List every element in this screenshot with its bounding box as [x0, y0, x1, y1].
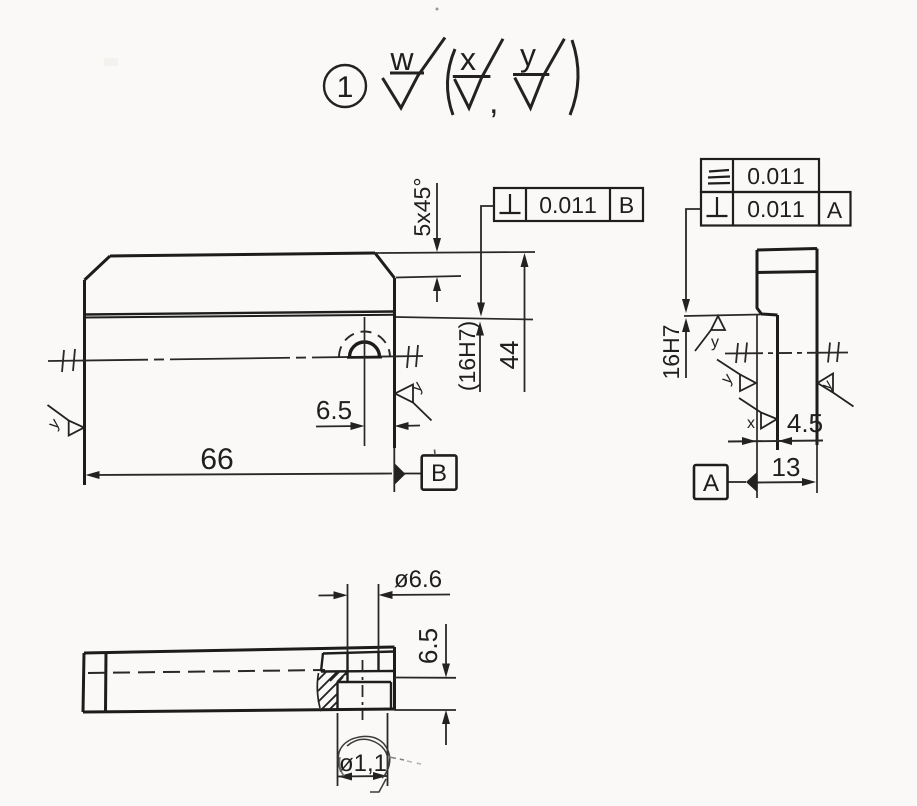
dimension 13 — [757, 481, 813, 484]
surface finish symbol y — [513, 39, 564, 108]
leader from frame to right view step — [686, 209, 701, 303]
dimension 16H7 right view — [685, 325, 687, 378]
dimension diameter 6.6 — [319, 584, 451, 652]
right view extension lines — [684, 315, 817, 499]
comma — [492, 109, 495, 117]
note balloon 1 — [324, 65, 366, 107]
leader from frame to step line — [481, 206, 494, 307]
hatching broken-out section — [317, 671, 348, 711]
dimension (16H7) front — [479, 329, 481, 392]
right view outline — [757, 249, 817, 451]
surface symbol y on left edge — [48, 405, 85, 436]
feature control frame perpendicularity 0.011 A (right view row2) — [701, 192, 851, 226]
front view outline — [85, 253, 395, 485]
parenthesis right — [570, 40, 578, 115]
surface symbol y mid (right view) — [717, 360, 756, 392]
dimension 44 — [524, 258, 526, 392]
right view centerline — [725, 342, 848, 363]
bottom view hole centerline vertical — [362, 660, 364, 720]
front view hole dashed arc — [339, 332, 390, 357]
feature control frame perpendicularity 0.011 B — [494, 188, 643, 221]
surface symbol y on right edge front — [395, 385, 432, 421]
faint scan smudge — [104, 58, 118, 66]
surface symbol y at step (right view) — [695, 316, 725, 351]
surface symbol y right side (right view) — [818, 374, 854, 407]
dimension 6.5 bottom view — [395, 624, 457, 745]
datum A symbol — [746, 472, 757, 492]
dimension 4.5 — [728, 441, 823, 442]
surface finish symbol w — [383, 38, 446, 109]
parenthesis left — [447, 49, 455, 115]
front view step double line — [85, 312, 395, 318]
front view top edge extension line — [375, 252, 535, 253]
bottom view boss and counterbore — [321, 652, 395, 710]
front view hole semicircle solid — [350, 342, 380, 357]
surface finish symbol x — [453, 39, 503, 108]
dimension 66 — [89, 474, 392, 476]
bottom view hidden centerline — [88, 670, 325, 673]
feature control frame parallel 0.011 (right view row1) — [701, 159, 819, 192]
front view centerline — [48, 345, 423, 372]
front view hole center extension line — [364, 317, 366, 446]
datum B symbol — [394, 463, 405, 485]
surface symbol x (right view) — [739, 398, 777, 429]
front view step extension line — [396, 317, 533, 320]
dimension 5x45 chamfer — [396, 183, 461, 302]
bottom view outline — [83, 647, 395, 712]
dimension 6.5 front — [316, 426, 420, 427]
dimension diameter 1,1 with sketch circle — [338, 713, 388, 786]
